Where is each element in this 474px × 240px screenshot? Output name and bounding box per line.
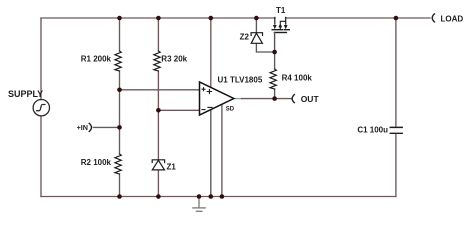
zener diode Z1 [152,160,164,170]
op-amp U1 input polarity marks [202,88,212,110]
voltage source SUPPLY [33,100,49,116]
svg-text:Z1: Z1 [167,162,177,171]
junction top rail R1 [117,16,122,21]
junction top rail Z2 [254,16,259,21]
junction node B (R3/Z1 - input) [156,108,161,113]
junction bottom rail Z1 [156,194,161,199]
capacitor C1 [390,127,402,133]
svg-text:C1 100u: C1 100u [357,125,388,134]
svg-text:SUPPLY: SUPPLY [8,89,43,99]
svg-text:SD: SD [226,107,235,113]
junction node A (R1/R2 + input) [117,88,122,93]
junction gate node [272,50,277,55]
svg-text:R1 200k: R1 200k [81,55,112,64]
wire top rail left [41,17,275,19]
terminal LOAD bracket [432,14,434,22]
wire op-amp V+ pin [210,18,212,87]
svg-text:R2 100k: R2 100k [81,158,112,167]
svg-text:R3 20k: R3 20k [161,55,187,64]
junction top rail C1 [394,16,399,21]
junction bottom rail V- [209,194,214,199]
wire bottom rail [41,196,396,198]
transistor T1 gate lead [274,33,276,53]
svg-text:OUT: OUT [301,94,320,104]
wire op-amp V- pin [210,110,212,197]
wire output row [234,98,242,100]
wire SD pin [221,105,223,197]
wire R3/Z1 column [157,18,159,197]
junction top rail R3 [156,16,161,21]
junction OUT node [272,96,277,101]
zener diode Z2 [251,33,262,44]
transistor T1 [275,17,286,29]
wire right column (C1 branch) [395,18,397,197]
resistor R4 [270,69,276,89]
op-amp U1 triangle [200,82,234,115]
wire R1/R2 column [119,18,121,197]
resistor R1 [115,51,121,71]
resistor R2 [115,154,121,174]
wire non-inverting input row [120,89,200,91]
wire R4 column [274,52,276,99]
wire +IN stub [93,126,119,128]
svg-text:R4 100k: R4 100k [282,74,313,83]
svg-text:Z2: Z2 [240,32,250,41]
terminal OUT bracket [292,95,294,103]
junction top rail V+ [209,16,214,21]
terminal +IN bracket [89,123,91,131]
junction bottom rail ground [197,194,202,199]
wire Z2 branch [256,18,274,52]
wire inverting input row [158,109,199,111]
junction bottom rail SD [220,194,225,199]
wire top rail right [286,17,430,19]
resistor R3 [154,51,160,71]
junction bottom rail R2 [117,194,122,199]
svg-text:T1: T1 [276,6,286,15]
svg-text:LOAD: LOAD [441,14,464,23]
wire left supply column [40,18,42,197]
junction node +IN [117,125,122,130]
ground [193,197,205,211]
svg-text:U1 TLV1805: U1 TLV1805 [218,76,263,85]
svg-text:+IN: +IN [77,123,88,132]
